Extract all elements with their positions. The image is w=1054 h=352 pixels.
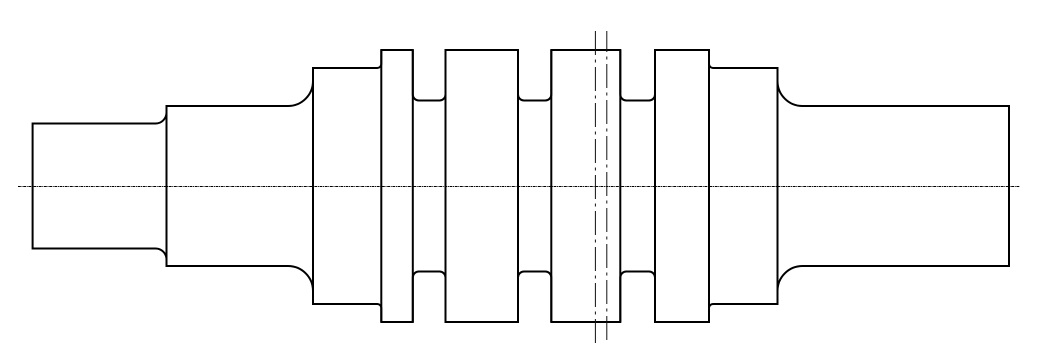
shaft silhouette outline with fillets [33,50,1009,322]
centerline (horizontal dash-dot axis) [18,186,1020,188]
right hub face edge at x=777.5 [777,68,779,304]
flange F3 right face edge [619,50,621,322]
section cut line A (vertical dash-dot) [594,31,596,343]
flange F4 right face edge [708,50,710,322]
flange F2 left face edge [445,50,447,322]
flange F3 left face edge [550,50,552,322]
flange F4 left face edge [654,50,656,322]
step face edge at x=166.5 [166,106,168,266]
section cut line B (vertical dash-dot) [606,31,608,343]
left hub face edge at x=313 [312,68,314,304]
flange F2 right face edge [517,50,519,322]
flange F1 left face edge [380,50,382,322]
flange F1 right face edge [412,50,414,322]
